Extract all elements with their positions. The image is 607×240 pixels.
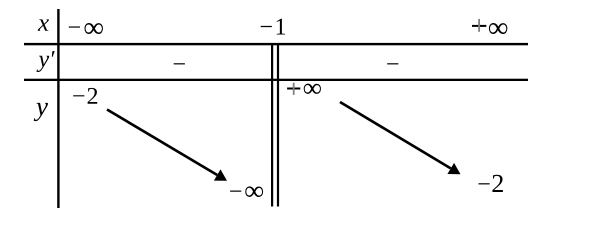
x value plus infinity: plus sign vertical stroke <box>478 19 480 32</box>
y limit -2 at minus infinity <box>73 88 97 104</box>
y limit plus infinity right of asymptote: infinity glyph <box>304 84 321 94</box>
decreasing arrow on left interval <box>107 110 227 181</box>
horizontal rule between x row and y' row <box>24 43 528 45</box>
variation table left vertical border <box>57 9 59 208</box>
sign minus on right interval <box>387 63 398 64</box>
sign minus on left interval <box>174 63 185 64</box>
x value plus infinity: infinity glyph <box>489 23 507 34</box>
row header x <box>38 19 49 30</box>
x value plus infinity: plus sign horizontal stroke <box>472 25 486 27</box>
x value -1 <box>261 19 285 35</box>
y limit plus infinity right of asymptote: plus sign horizontal stroke <box>287 88 300 90</box>
x value minus infinity: minus sign <box>69 26 80 27</box>
row header y' <box>37 51 55 72</box>
double vertical bar (asymptote at x = -1), left bar <box>271 43 273 207</box>
row header y <box>34 103 48 121</box>
y limit plus infinity right of asymptote: plus sign vertical stroke <box>293 83 295 95</box>
y limit -2 at plus infinity: digit 2 <box>492 175 502 192</box>
x value minus infinity: infinity glyph <box>84 23 102 34</box>
y limit minus infinity left of asymptote: infinity glyph <box>245 186 263 197</box>
double vertical bar (asymptote at x = -1), right bar <box>277 43 279 207</box>
y limit -2 at plus infinity: minus sign <box>479 183 490 184</box>
y limit minus infinity left of asymptote: minus sign <box>230 191 241 192</box>
decreasing arrow on right interval <box>340 102 461 174</box>
horizontal rule between y' row and y row <box>24 79 528 81</box>
